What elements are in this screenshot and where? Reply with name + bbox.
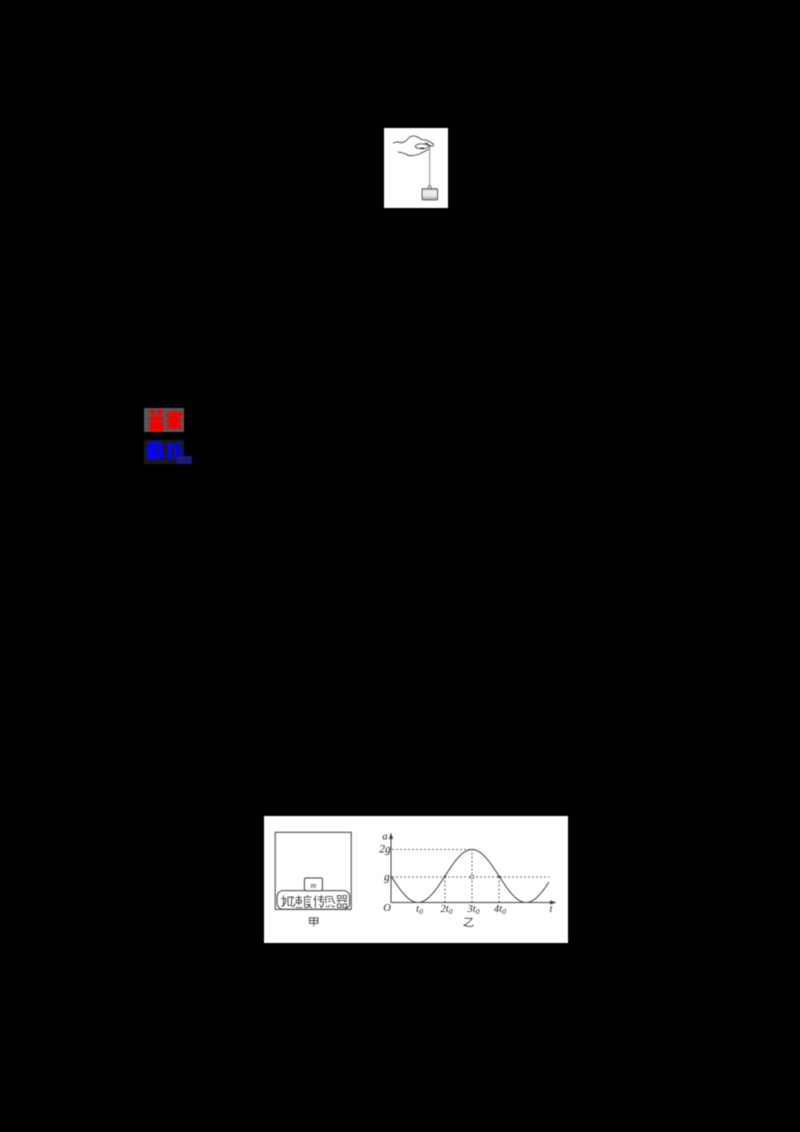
hook at top of weight bbox=[429, 186, 431, 190]
svg-text:2g: 2g bbox=[379, 844, 391, 856]
char 1 bbox=[150, 410, 163, 415]
x-axis bbox=[391, 902, 551, 904]
node dot at (2t0,g) bbox=[444, 875, 446, 877]
char 1 解 bbox=[148, 443, 155, 446]
red answer label (答案) bbox=[142, 406, 196, 434]
感 bbox=[326, 897, 336, 908]
dashed g horizontal bbox=[392, 876, 550, 878]
svg-text:O: O bbox=[383, 903, 391, 914]
mass block m bbox=[304, 878, 322, 891]
dashed vertical at 2t0 bbox=[444, 877, 446, 903]
blue analysis label (解析) with navy mark bbox=[142, 438, 196, 466]
dashed vertical at 3t0 bbox=[471, 850, 473, 903]
器 bbox=[337, 896, 348, 908]
open node at (3t0,g) bbox=[470, 875, 473, 878]
hand top contour bbox=[393, 136, 433, 146]
svg-text:t: t bbox=[550, 904, 553, 915]
graph axes bbox=[391, 837, 551, 903]
sensor text 加速度传感器 (pseudo-glyphs) bbox=[281, 895, 348, 908]
finger tip inner line bbox=[424, 142, 428, 144]
x arrowhead bbox=[550, 900, 557, 904]
finger dark spot bbox=[420, 148, 425, 149]
elevator square bbox=[275, 832, 351, 909]
svg-text:a: a bbox=[382, 832, 387, 843]
度 bbox=[304, 895, 312, 908]
y arrowhead bbox=[389, 833, 393, 840]
navy highlight mark bbox=[177, 456, 193, 464]
sensor rounded box bbox=[277, 891, 350, 910]
node dot at (4t0,g) bbox=[498, 875, 500, 877]
速 bbox=[292, 896, 303, 908]
传 bbox=[314, 895, 325, 908]
hand bottom contour (thumb) bbox=[398, 149, 428, 155]
hand curled index finger bbox=[415, 144, 429, 149]
acceleration curve a(t) bbox=[391, 850, 549, 903]
y-axis bbox=[390, 837, 392, 903]
svg-text:g: g bbox=[384, 871, 390, 883]
axis labels bbox=[379, 832, 552, 916]
char 2 bbox=[168, 410, 181, 417]
bottom white panel: experiment figure 甲 and graph 乙 bbox=[264, 816, 568, 943]
weight (cylinder) bbox=[422, 189, 438, 200]
svg-text:m: m bbox=[311, 881, 317, 890]
加 bbox=[281, 896, 292, 907]
甲 label bbox=[310, 918, 319, 927]
dashed 2g horizontal bbox=[392, 849, 472, 851]
dashed vertical at 4t0 bbox=[498, 877, 500, 903]
char 2 析 bbox=[166, 442, 173, 461]
string bbox=[429, 145, 431, 186]
figure: hand holding string with weight (white panel) bbox=[384, 128, 448, 208]
乙 label bbox=[464, 918, 473, 926]
